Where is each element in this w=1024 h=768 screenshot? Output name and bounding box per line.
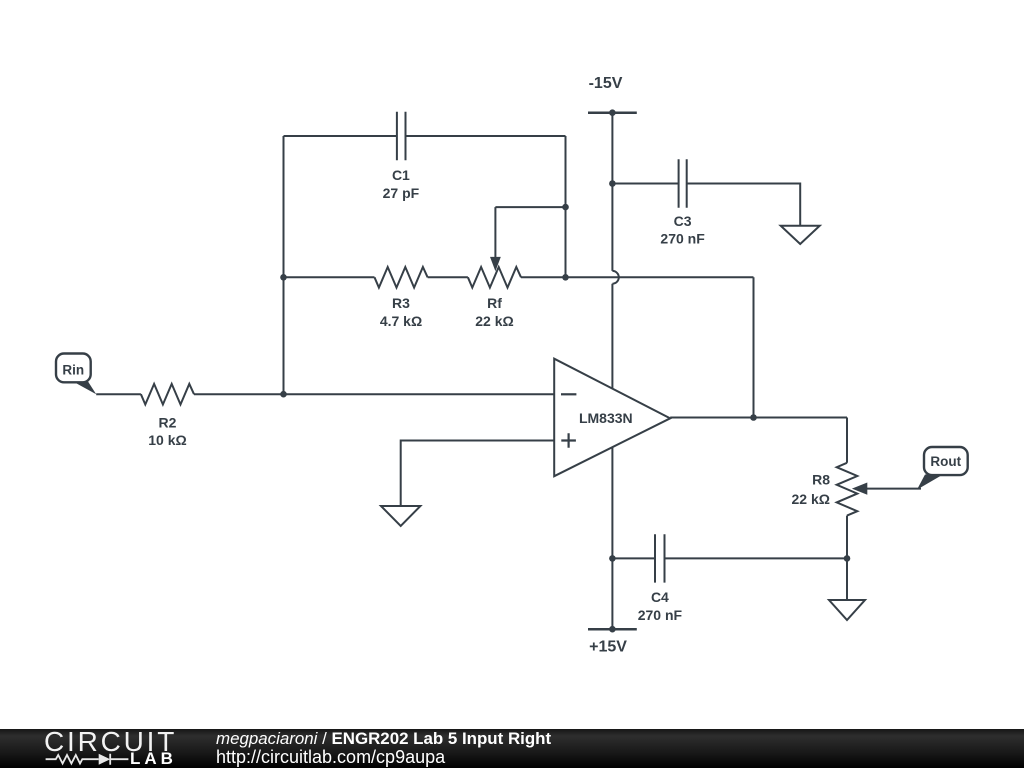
wire C4 left lead xyxy=(612,557,655,559)
potentiometer Rf xyxy=(468,267,521,288)
wire -15V rail upper xyxy=(611,113,613,271)
svg-text:R3: R3 xyxy=(392,295,410,311)
svg-text:C4: C4 xyxy=(651,589,669,605)
op-amp minus sign xyxy=(561,393,576,395)
logo resistor-diode symbol xyxy=(0,729,140,768)
svg-text:LM833N: LM833N xyxy=(579,410,633,426)
capacitor C4 xyxy=(655,534,665,582)
wire output down to R8 xyxy=(846,418,848,463)
ground R8 xyxy=(829,600,865,620)
flag Rout box xyxy=(924,447,968,475)
svg-text:27 pF: 27 pF xyxy=(383,185,420,201)
svg-text:C1: C1 xyxy=(392,167,410,183)
svg-text:Rin: Rin xyxy=(62,362,84,377)
wire R2 to op-amp minus input xyxy=(194,393,554,395)
capacitor C3 xyxy=(679,159,687,207)
svg-text:+15V: +15V xyxy=(589,639,627,656)
node dot +15V xyxy=(609,626,616,633)
logo LAB text xyxy=(130,750,177,767)
node dot -15V xyxy=(609,109,616,116)
wire op-amp output xyxy=(670,417,847,419)
footer line 1 xyxy=(216,730,551,748)
wire C3 right lead to ground xyxy=(687,184,801,226)
power supply +15V bar xyxy=(588,628,637,631)
wire C1 loop left vertical xyxy=(283,136,285,394)
wire Rf wiper horizontal xyxy=(495,206,565,208)
flag pointer Rin xyxy=(73,382,96,395)
wire feedback row right lead xyxy=(521,276,754,278)
arrowhead R8 wiper xyxy=(852,483,867,495)
wire feedback vertical to output xyxy=(753,277,755,417)
footer line 2 xyxy=(216,748,445,766)
svg-text:R8: R8 xyxy=(812,472,830,488)
wire feedback row left lead xyxy=(284,276,375,278)
node dot wiper junction xyxy=(562,204,569,211)
power supply -15V bar xyxy=(588,111,637,114)
node dot C4 left xyxy=(609,555,616,562)
node dot feedback right xyxy=(562,274,569,281)
wire R8 wiper xyxy=(866,488,921,490)
wire C1 top right segment xyxy=(406,135,566,137)
wire op-amp bottom pin to +15V xyxy=(611,447,613,629)
wire -15V rail to op-amp top pin xyxy=(611,284,613,389)
flag pointer Rout xyxy=(917,475,943,490)
potentiometer R8 xyxy=(837,463,858,516)
svg-text:10 kΩ: 10 kΩ xyxy=(148,432,186,448)
arrowhead Rf wiper xyxy=(490,257,501,271)
resistor R3 xyxy=(375,267,428,288)
footer bar xyxy=(0,729,1024,768)
svg-text:270 nF: 270 nF xyxy=(638,607,683,623)
svg-text:270 nF: 270 nF xyxy=(660,230,705,246)
svg-text:22 kΩ: 22 kΩ xyxy=(475,313,513,329)
ground C3 xyxy=(781,226,820,244)
wire C3 left lead xyxy=(612,183,678,185)
svg-text:Rout: Rout xyxy=(930,454,961,469)
svg-text:R2: R2 xyxy=(159,414,177,430)
wire R8 bottom xyxy=(846,516,848,600)
node dot feedback left xyxy=(280,274,287,281)
op-amp U1 triangle xyxy=(554,359,670,477)
svg-text:-15V: -15V xyxy=(589,75,623,92)
capacitor C1 xyxy=(397,112,406,160)
wire right vertical of C1 loop xyxy=(565,136,567,277)
logo CIRCUIT text xyxy=(44,729,177,755)
wire Rf wiper vertical xyxy=(494,207,496,257)
op-amp plus sign xyxy=(561,433,576,448)
node dot output junction xyxy=(750,414,757,421)
svg-text:Rf: Rf xyxy=(487,295,502,311)
resistor R2 xyxy=(141,384,194,405)
svg-text:4.7 kΩ: 4.7 kΩ xyxy=(380,313,422,329)
node dot C3 junction xyxy=(609,180,616,187)
wire C1 top left segment xyxy=(284,135,397,137)
flag Rin box xyxy=(56,354,91,383)
wire Rin to R2 xyxy=(96,393,141,395)
svg-text:C3: C3 xyxy=(674,213,692,229)
ground op-amp plus xyxy=(381,506,420,526)
svg-text:22 kΩ: 22 kΩ xyxy=(792,491,830,507)
node dot input row xyxy=(280,391,287,398)
node dot C4 right xyxy=(844,555,851,562)
wire between R3 and Rf xyxy=(428,276,468,278)
wire plus input to ground xyxy=(401,441,555,507)
wire hop over feedback xyxy=(612,271,618,284)
wire C4 right lead xyxy=(665,557,848,559)
